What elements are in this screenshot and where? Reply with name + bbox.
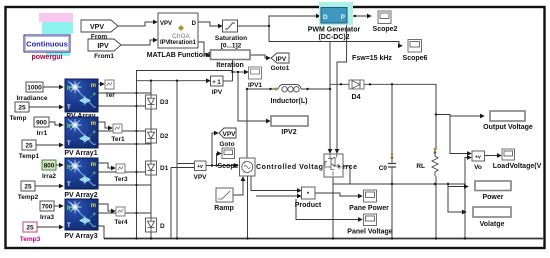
svg-text:Ter3: Ter3 bbox=[114, 176, 128, 183]
PV Array1 block bbox=[65, 117, 98, 148]
svg-text:Scope6: Scope6 bbox=[403, 55, 428, 62]
svg-text:Vo: Vo bbox=[474, 164, 482, 171]
wire Vo out to LoadVoltage bbox=[485, 155, 502, 157]
svg-text:T: T bbox=[67, 182, 71, 188]
svg-text:D4: D4 bbox=[352, 94, 361, 101]
scope2 bbox=[378, 11, 391, 24]
Vo measurement block bbox=[472, 151, 485, 161]
orange dots C0 bbox=[391, 153, 394, 156]
panel voltage display bbox=[364, 214, 377, 226]
wire D4 out to right bbox=[364, 84, 436, 150]
power display bbox=[475, 181, 511, 191]
wire product in2 bbox=[256, 195, 301, 197]
svg-text:Saturation: Saturation bbox=[215, 35, 247, 42]
constant temp3 25 bbox=[20, 222, 63, 243]
svg-text:C0: C0 bbox=[379, 165, 388, 172]
svg-text:Temp3: Temp3 bbox=[20, 236, 41, 243]
wire product out to pane power bbox=[315, 193, 362, 196]
controlled voltage source block bbox=[240, 158, 256, 176]
svg-text:Power: Power bbox=[482, 194, 503, 201]
wire iteration net vertical bbox=[232, 50, 234, 81]
wire Vo minus from bus bbox=[465, 158, 471, 239]
goto1 tag IPV bbox=[271, 53, 290, 72]
svg-text:m: m bbox=[338, 165, 342, 170]
svg-text:IPV1: IPV1 bbox=[248, 82, 262, 89]
svg-text:powergui: powergui bbox=[31, 54, 62, 61]
wire Iteration1 out to Iteration display bbox=[198, 42, 210, 55]
wire m to Ter bbox=[98, 83, 104, 85]
Ter3 block bbox=[116, 164, 125, 173]
wire RL bottom bbox=[435, 176, 437, 239]
highlight smear cyan bbox=[42, 22, 73, 34]
inductor L bbox=[278, 85, 301, 93]
svg-text:IPV: IPV bbox=[212, 89, 223, 96]
wire pv port stubs bbox=[98, 93, 137, 213]
svg-text:Goto: Goto bbox=[219, 141, 234, 148]
wire output negative rail bbox=[333, 183, 465, 185]
wire C0 vertical bbox=[391, 84, 393, 238]
svg-text:LoadVoltage(V: LoadVoltage(V bbox=[493, 163, 542, 170]
constant temp 25 bbox=[10, 102, 63, 122]
svg-text:800: 800 bbox=[44, 163, 55, 170]
wire D out to Saturation bbox=[198, 22, 222, 26]
wire m2 to Ter3 bbox=[98, 163, 115, 168]
wire down to IPV2 bbox=[238, 72, 270, 121]
diode D4 bbox=[349, 80, 364, 89]
wire inductor node up to D4 bbox=[330, 84, 349, 89]
wire VPV From to MATLAB bbox=[118, 22, 157, 26]
svg-text:m: m bbox=[91, 121, 96, 127]
Ter4 block bbox=[116, 207, 125, 216]
svg-text:Iteration1: Iteration1 bbox=[169, 40, 197, 46]
svg-text:Ter1: Ter1 bbox=[111, 136, 125, 143]
wire tap to VPV goto bbox=[212, 133, 218, 166]
svg-text:+v: +v bbox=[197, 164, 203, 170]
svg-text:m: m bbox=[91, 83, 96, 89]
svg-text:D1: D1 bbox=[160, 165, 169, 172]
scope6 bbox=[408, 40, 422, 53]
svg-text:Ramp: Ramp bbox=[214, 205, 233, 212]
diode D bbox=[146, 218, 157, 232]
Ter1 block bbox=[113, 124, 122, 133]
svg-text:Temp1: Temp1 bbox=[19, 153, 40, 160]
orange dots RL bbox=[434, 148, 437, 151]
svg-text:Irra2: Irra2 bbox=[42, 173, 56, 180]
wire inductor line bbox=[247, 88, 330, 90]
svg-text:Ir: Ir bbox=[67, 124, 72, 130]
svg-text:+ 1: + 1 bbox=[212, 80, 221, 86]
wire plus1 out bbox=[223, 80, 233, 82]
highlight smear pink bbox=[39, 13, 73, 22]
wire PWM P to Scope2 bbox=[347, 15, 371, 17]
wire bottom bus bbox=[104, 238, 543, 240]
wire VPV meas inputs bbox=[171, 164, 194, 168]
PV Array3 block bbox=[65, 199, 98, 230]
svg-text:P: P bbox=[341, 14, 346, 21]
svg-text:Output Voltage: Output Voltage bbox=[483, 124, 533, 131]
wire ramp out to CVS bbox=[233, 177, 243, 195]
svg-text:900: 900 bbox=[36, 120, 47, 127]
svg-text:Ter: Ter bbox=[105, 92, 115, 99]
wire VPV out line bbox=[206, 165, 238, 167]
svg-text:Fsw=15 kHz: Fsw=15 kHz bbox=[352, 55, 392, 62]
wire IPV From1 to MATLAB bbox=[121, 40, 157, 45]
svg-text:D: D bbox=[323, 14, 328, 21]
svg-text:Inductor(L): Inductor(L) bbox=[271, 98, 308, 105]
svg-text:-: - bbox=[94, 224, 96, 230]
wire Saturation to PWM D bbox=[238, 16, 320, 26]
wire to Vo plus bbox=[450, 116, 471, 154]
svg-text:Ir: Ir bbox=[67, 165, 72, 171]
wire output node branch bbox=[436, 115, 484, 117]
output voltage display bbox=[490, 111, 525, 121]
pane power display bbox=[364, 190, 377, 202]
diode D3 bbox=[146, 95, 157, 109]
powergui block bbox=[24, 35, 70, 52]
scope block bbox=[222, 148, 235, 159]
svg-text:(DC-DC)2: (DC-DC)2 bbox=[318, 34, 349, 41]
wire pv jumpers bbox=[137, 93, 152, 213]
wire gate from P down to mosfet bbox=[337, 16, 347, 153]
svg-text:PV Array3: PV Array3 bbox=[64, 233, 97, 240]
svg-text:25: 25 bbox=[25, 143, 33, 150]
wire m3 to Ter4 bbox=[98, 204, 115, 211]
svg-text:Temp2: Temp2 bbox=[18, 194, 39, 201]
iteration display bbox=[211, 50, 251, 60]
svg-text:RL: RL bbox=[416, 163, 425, 170]
svg-text:Scope: Scope bbox=[217, 163, 238, 170]
constant 800 bbox=[42, 160, 63, 180]
svg-text:Ir: Ir bbox=[67, 86, 72, 92]
constant 900 bbox=[34, 117, 63, 137]
svg-text:PWM Generator: PWM Generator bbox=[308, 27, 361, 34]
from tag IPV bbox=[88, 39, 121, 60]
wire D branch to Scope6 bbox=[269, 26, 402, 46]
C0 capacitor bbox=[388, 162, 396, 175]
wire pv3 minus to bus bbox=[98, 226, 104, 239]
RL resistor bbox=[432, 150, 438, 176]
svg-text:1000: 1000 bbox=[27, 85, 42, 92]
svg-text:-: - bbox=[94, 105, 96, 111]
svg-text:T: T bbox=[67, 141, 71, 147]
wire VPV minus riser bbox=[170, 168, 172, 239]
constant 1000 bbox=[16, 82, 63, 102]
diode D1 bbox=[146, 161, 157, 175]
svg-text:Irra3: Irra3 bbox=[40, 214, 54, 221]
svg-text:From1: From1 bbox=[94, 53, 114, 60]
svg-text:PV Array2: PV Array2 bbox=[64, 192, 97, 199]
svg-text:VPV: VPV bbox=[222, 131, 236, 138]
svg-text:VPV: VPV bbox=[160, 21, 172, 27]
VPV measurement block bbox=[195, 161, 207, 171]
wire power display feed bbox=[448, 184, 468, 187]
wire feedback loop top bbox=[137, 71, 233, 81]
svg-text:MATLAB Function1: MATLAB Function1 bbox=[147, 52, 212, 59]
wire feedback into plus1 bbox=[136, 80, 210, 82]
svg-text:25: 25 bbox=[24, 184, 32, 191]
svg-text:Pane Power: Pane Power bbox=[349, 205, 389, 212]
svg-text:25: 25 bbox=[26, 225, 34, 232]
PWM generator block bbox=[321, 8, 347, 24]
wire scope6 line branch down bbox=[329, 42, 331, 90]
wire left rail bbox=[136, 81, 138, 239]
svg-text:25: 25 bbox=[18, 105, 26, 112]
wire mosfet source down bbox=[332, 177, 334, 239]
svg-text:Irradiance: Irradiance bbox=[16, 95, 47, 102]
svg-text:Volatge: Volatge bbox=[480, 221, 505, 228]
PV Array block bbox=[65, 79, 98, 112]
svg-text:IPV: IPV bbox=[276, 56, 287, 63]
wire CVS top feed bbox=[246, 89, 248, 158]
svg-text:Scope2: Scope2 bbox=[373, 26, 398, 33]
goto tag VPV bbox=[219, 128, 236, 148]
wire volatge display feed bbox=[448, 187, 466, 213]
saturation block bbox=[223, 20, 238, 32]
PV Array2 block bbox=[65, 158, 98, 189]
svg-text:-: - bbox=[94, 142, 96, 148]
mosfet block bbox=[324, 154, 343, 177]
svg-text:+v: +v bbox=[475, 155, 481, 161]
LoadVoltage scope bbox=[502, 149, 515, 160]
svg-text:+: + bbox=[243, 160, 246, 165]
svg-text:+: + bbox=[92, 92, 96, 98]
svg-text:Continuous: Continuous bbox=[26, 40, 68, 49]
svg-text:D2: D2 bbox=[160, 133, 169, 140]
wire m1 to Ter1 bbox=[98, 122, 112, 128]
wire diode rail bbox=[150, 81, 152, 239]
svg-text:IPV: IPV bbox=[97, 43, 109, 50]
wire Iteration to Goto1 bbox=[250, 55, 270, 58]
wire CVS to product in1 bbox=[251, 176, 301, 191]
volatge display bbox=[473, 207, 511, 217]
plus1 block bbox=[211, 76, 224, 86]
wire panel voltage feed bbox=[296, 199, 362, 220]
svg-text:Ir: Ir bbox=[67, 206, 72, 212]
PWM generator highlight bbox=[319, 2, 353, 25]
svg-text:Iteration: Iteration bbox=[216, 62, 244, 69]
svg-text:Ter4: Ter4 bbox=[114, 219, 128, 226]
svg-text:IPV2: IPV2 bbox=[281, 129, 296, 136]
svg-text:Goto1: Goto1 bbox=[271, 65, 290, 72]
Ter block bbox=[105, 80, 114, 89]
svg-text:[0...1]2: [0...1]2 bbox=[221, 43, 242, 50]
constant 700 bbox=[40, 201, 63, 221]
wire tap to scope bbox=[217, 154, 222, 166]
svg-text:T: T bbox=[67, 223, 71, 229]
wire plus rail bbox=[176, 81, 178, 239]
svg-text:+: + bbox=[92, 212, 96, 218]
svg-text:+: + bbox=[92, 171, 96, 177]
constant temp1 25 bbox=[19, 140, 63, 160]
svg-text:PV Array1: PV Array1 bbox=[64, 150, 97, 157]
IPV2 display bbox=[271, 116, 308, 126]
svg-text:ChOA: ChOA bbox=[172, 33, 190, 40]
wire mosfet drain bbox=[329, 89, 331, 153]
svg-text:Panel Voltage: Panel Voltage bbox=[347, 229, 392, 236]
svg-text:Irr1: Irr1 bbox=[37, 130, 48, 137]
matlab function block U1 bbox=[158, 13, 198, 48]
svg-text:m: m bbox=[91, 162, 96, 168]
from tag VPV bbox=[81, 20, 118, 41]
svg-text:700: 700 bbox=[42, 204, 53, 211]
diode D2 bbox=[146, 129, 157, 143]
svg-text:Product: Product bbox=[295, 202, 322, 209]
svg-text:+: + bbox=[92, 130, 96, 136]
IPV1 display bbox=[249, 67, 262, 79]
svg-text:m: m bbox=[91, 203, 96, 209]
ramp block bbox=[216, 188, 233, 202]
svg-text:-: - bbox=[94, 183, 96, 189]
wire CVS minus down to bus bbox=[247, 176, 249, 239]
wire to IPV1 display bbox=[233, 71, 249, 73]
svg-text:D: D bbox=[192, 21, 197, 27]
svg-text:D3: D3 bbox=[160, 99, 169, 106]
constant temp2 25 bbox=[18, 181, 63, 201]
svg-text:Temp: Temp bbox=[10, 115, 27, 122]
svg-text:T: T bbox=[67, 105, 71, 111]
svg-text:D: D bbox=[160, 223, 165, 230]
svg-text:VPV: VPV bbox=[90, 24, 104, 31]
svg-text:VPV: VPV bbox=[193, 174, 207, 181]
wire mosfet m out bbox=[343, 166, 350, 184]
orange dot inductor bbox=[275, 88, 278, 91]
product block bbox=[302, 187, 316, 199]
